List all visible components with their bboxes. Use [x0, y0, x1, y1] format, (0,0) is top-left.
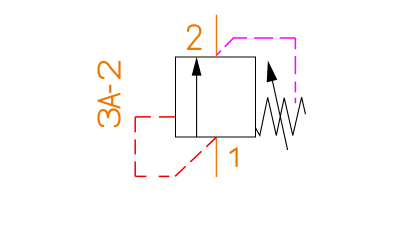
drain line segment: top horizontal to valve body (red dashed)	[135, 116, 175, 118]
port 2 label "2"	[188, 25, 201, 49]
adjustment arrow through spring	[267, 61, 288, 151]
glyph -	[109, 86, 111, 93]
glyph A	[99, 94, 120, 107]
port 1 label "1"	[230, 148, 236, 166]
pilot line segment: vertical down to spring (magenta dashed)	[294, 38, 296, 103]
spring (zigzag)	[255, 97, 305, 135]
port 1 line (orange)	[215, 137, 217, 177]
valve body U (2-port valve envelope)	[176, 57, 256, 137]
flow path arrow (port 1 to port 2)	[192, 57, 202, 137]
glyph 3	[99, 110, 120, 127]
drain line segment: diagonal from port 1 (red dashed)	[175, 137, 216, 176]
component tag "3A-2" (rotated 90 CCW)	[99, 62, 120, 126]
drain line segment: bottom horizontal (red dashed)	[135, 175, 175, 177]
drain line segment: left vertical (red dashed)	[134, 117, 136, 176]
pilot line segment: diagonal from port 2 (magenta dashed)	[217, 38, 234, 55]
glyph 2	[99, 62, 120, 78]
pilot line segment: horizontal (magenta dashed)	[233, 37, 296, 39]
port 2 line (orange)	[216, 15, 218, 57]
